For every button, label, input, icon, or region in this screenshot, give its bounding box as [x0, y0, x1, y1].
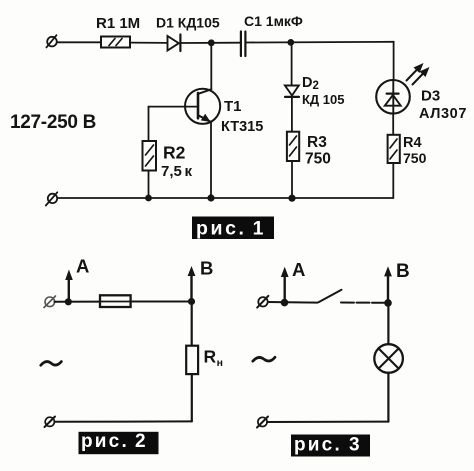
wire R3 to bottom rail — [291, 161, 293, 198]
lamp HL fig3 — [374, 344, 403, 373]
wire base lead — [149, 107, 199, 141]
svg-text:A: A — [292, 259, 305, 280]
AC tilde fig2 — [41, 362, 62, 366]
svg-text:D1 КД105: D1 КД105 — [156, 15, 220, 31]
transistor T1 — [185, 89, 220, 124]
wire R2 to bottom rail — [148, 171, 150, 199]
resistor R2 — [143, 141, 157, 171]
wire D2 branch top — [291, 42, 293, 85]
wire bottom rail fig2 — [55, 420, 192, 422]
fuse fig2 — [100, 295, 131, 307]
wire R4 to bottom rail — [392, 163, 394, 198]
terminal bottom-left fig2 — [45, 417, 56, 428]
svg-text:рис.3: рис.3 — [294, 435, 362, 456]
wire Rn to bottom — [191, 374, 193, 421]
svg-text:R1 1M: R1 1M — [96, 15, 140, 32]
wire bottom rail fig3 — [267, 421, 388, 423]
wire B drop to lamp — [387, 303, 389, 344]
svg-text:Rн: Rн — [204, 347, 223, 370]
resistor Rn — [186, 346, 198, 374]
svg-text:R2: R2 — [163, 143, 186, 163]
svg-text:АЛ307: АЛ307 — [419, 106, 467, 122]
node R2 bottom — [145, 195, 152, 202]
arrow B fig3 — [384, 266, 392, 303]
svg-text:рис.1: рис.1 — [196, 218, 266, 240]
terminal top-left fig1 — [46, 35, 56, 47]
wire B drop to Rn — [191, 302, 193, 346]
caption fig3 — [291, 435, 370, 457]
wire switch to B fig3 — [341, 302, 388, 304]
arrow A fig3 — [281, 267, 289, 303]
wire lamp to bottom — [387, 373, 389, 422]
terminal top-left fig2 — [44, 296, 56, 308]
svg-text:R3: R3 — [307, 134, 327, 151]
node A fig3 — [281, 299, 289, 307]
resistor R4 — [388, 135, 400, 163]
node R3 bottom — [288, 195, 295, 202]
wire emitter drop — [210, 122, 212, 199]
LED D3 emission arrows — [407, 63, 430, 85]
terminal bottom-left fig1 — [46, 192, 58, 205]
wire top rail left — [58, 41, 102, 43]
diode D1 — [168, 35, 181, 52]
svg-text:D3: D3 — [421, 88, 440, 105]
resistor R1 — [101, 37, 130, 48]
resistor R3 — [287, 132, 299, 161]
wire LED branch top — [393, 42, 395, 80]
wire LED to R4 — [392, 114, 394, 135]
svg-text:D2: D2 — [302, 75, 319, 92]
node junction D2 branch — [287, 39, 294, 46]
svg-text:B: B — [200, 258, 213, 279]
wire fig2 top left — [55, 301, 101, 303]
terminal bottom-left fig3 — [257, 417, 268, 428]
svg-text:КД 105: КД 105 — [302, 92, 345, 107]
node junction collector — [208, 39, 215, 46]
node emitter bottom — [207, 194, 214, 201]
wire C1 to right corner — [246, 41, 394, 44]
wire collector drop — [210, 43, 212, 90]
svg-text:рис.2: рис.2 — [81, 431, 148, 452]
svg-text:Т1: Т1 — [224, 98, 242, 115]
caption fig1 — [192, 217, 274, 240]
svg-text:С1 1мкФ: С1 1мкФ — [244, 13, 303, 29]
svg-text:750: 750 — [305, 151, 331, 168]
wire D2 to R3 — [291, 97, 293, 132]
wire fig3 top left — [268, 301, 318, 304]
svg-text:КТ315: КТ315 — [221, 119, 263, 135]
terminal top-left fig3 — [257, 296, 268, 308]
wire R1 to D1 — [130, 42, 167, 44]
caption fig2 — [79, 431, 159, 454]
arrow A fig2 — [65, 270, 73, 302]
node B fig2 — [188, 298, 195, 305]
svg-text:R4: R4 — [403, 135, 422, 151]
LED D3 — [376, 80, 410, 114]
node A fig2 — [65, 298, 72, 305]
wire fuse to B fig2 — [131, 301, 192, 303]
node B fig3 — [384, 299, 392, 307]
wire bottom rail fig1 — [59, 197, 394, 199]
svg-text:127-250 В: 127-250 В — [10, 112, 96, 133]
svg-text:A: A — [76, 256, 89, 277]
wire D1 to C1 — [180, 42, 240, 44]
switch blade fig3 — [319, 290, 342, 302]
svg-text:7,5 к: 7,5 к — [161, 163, 193, 180]
capacitor C1 — [241, 32, 246, 57]
arrow B fig2 — [188, 266, 196, 302]
diode D2 — [285, 86, 299, 97]
svg-text:B: B — [396, 261, 410, 282]
svg-text:750: 750 — [403, 150, 427, 166]
AC tilde fig3 — [253, 357, 275, 361]
